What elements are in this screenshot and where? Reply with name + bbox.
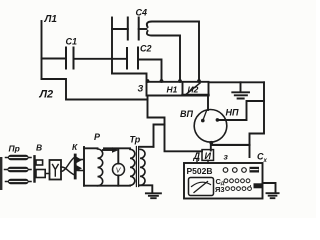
switch V tabs — [36, 160, 43, 165]
knob circles row R — [226, 187, 230, 191]
knob circles row C — [224, 179, 228, 183]
capacitor C2 — [127, 48, 138, 69]
ground (top right) — [232, 82, 249, 98]
svg-text:х: х — [263, 158, 268, 164]
node vertical line (junction column) — [111, 18, 113, 74]
meter window — [189, 178, 214, 196]
meter needle — [194, 182, 208, 193]
transformer Tr left winding — [130, 149, 135, 185]
wire to C4 — [112, 28, 128, 30]
wire bar bottom down-right path — [148, 96, 203, 152]
switch V bar — [33, 156, 35, 181]
svg-text:ВП: ВП — [180, 109, 193, 119]
wire C4 to connector fork — [139, 28, 147, 30]
electrode bottom dot — [209, 141, 213, 145]
electrode lead L2 wire — [42, 79, 148, 100]
wire C1 to C2 — [74, 58, 128, 60]
svg-text:В: В — [36, 143, 42, 153]
transformer top right lead — [140, 146, 154, 148]
svg-text:Тр: Тр — [130, 135, 141, 145]
variac R rails — [84, 148, 130, 185]
svg-text:Л2: Л2 — [39, 89, 54, 101]
junction node dots on bar — [146, 79, 201, 83]
svg-text:С1: С1 — [66, 37, 78, 47]
ground (transformer) — [146, 193, 161, 198]
svg-text:К: К — [72, 142, 78, 152]
variac R winding — [98, 149, 103, 186]
transformer Tr right winding — [140, 149, 145, 185]
fuse 1 Pr — [6, 157, 32, 159]
fuse 3 Pr — [6, 181, 32, 183]
wire branch to NP electrode — [217, 101, 264, 120]
svg-text:З: З — [138, 84, 144, 94]
ground (box right) — [267, 193, 279, 198]
capacitor C1 — [66, 48, 74, 69]
wire I2 terminal to tube top — [207, 96, 209, 111]
transformer Tr core — [136, 147, 138, 187]
capacitor C4 — [128, 18, 139, 40]
fuse 2 Pr — [5, 169, 32, 171]
bridge instrument box P5028 — [184, 163, 263, 199]
svg-text:з: з — [224, 152, 229, 162]
knobs row — [223, 168, 228, 173]
svg-text:Р: Р — [94, 132, 101, 142]
wire bar to right — [209, 81, 265, 83]
contactor K — [74, 155, 77, 178]
wire bottom dot to box — [210, 143, 212, 151]
left edge artifact — [0, 157, 2, 190]
svg-text:И: И — [205, 151, 212, 161]
crossing wires to K — [61, 157, 75, 175]
svg-text:С4: С4 — [136, 8, 148, 18]
variac arrow — [103, 149, 113, 151]
svg-text:Д: Д — [193, 151, 201, 161]
svg-text:Л1: Л1 — [44, 14, 58, 25]
wire L1 to C1 — [42, 58, 67, 60]
svg-text:С2: С2 — [140, 44, 152, 54]
svg-text:Пр: Пр — [9, 144, 20, 154]
wire right descent to Cx — [250, 82, 265, 157]
svg-text:Н1: Н1 — [167, 85, 178, 95]
svg-text:Я3: Я3 — [215, 185, 225, 194]
wire box to ground right — [263, 183, 276, 193]
electrode dot NP — [216, 118, 220, 122]
connector fork upper branch — [147, 22, 199, 82]
transformer bottom right lead to ground — [140, 185, 152, 193]
svg-text:Р502В: Р502В — [187, 166, 213, 176]
electrode lead L1 vertical — [41, 21, 43, 79]
svg-text:НП: НП — [226, 108, 239, 118]
variac R left lead — [83, 147, 85, 186]
terminal I box above instrument — [202, 150, 214, 161]
terminal bar hatch over I2 cell — [187, 83, 201, 94]
electrode dot VP — [201, 119, 205, 123]
wire arrow to transformer rail — [104, 147, 130, 149]
wire node column to terminal bar — [112, 74, 147, 82]
dark indicator top right — [250, 167, 260, 173]
voltmeter V — [113, 164, 125, 176]
stabilizer box with psi symbol — [50, 160, 62, 180]
connector fork lower branch — [147, 31, 180, 81]
wire C2 to bar — [138, 60, 162, 82]
dark connector right — [254, 183, 263, 188]
terminal bar — [147, 82, 209, 96]
svg-text:И2: И2 — [188, 85, 199, 95]
meter dial arc — [192, 182, 211, 186]
tube (sample chamber) circle — [194, 110, 227, 143]
wire transformer top up path — [154, 125, 165, 147]
